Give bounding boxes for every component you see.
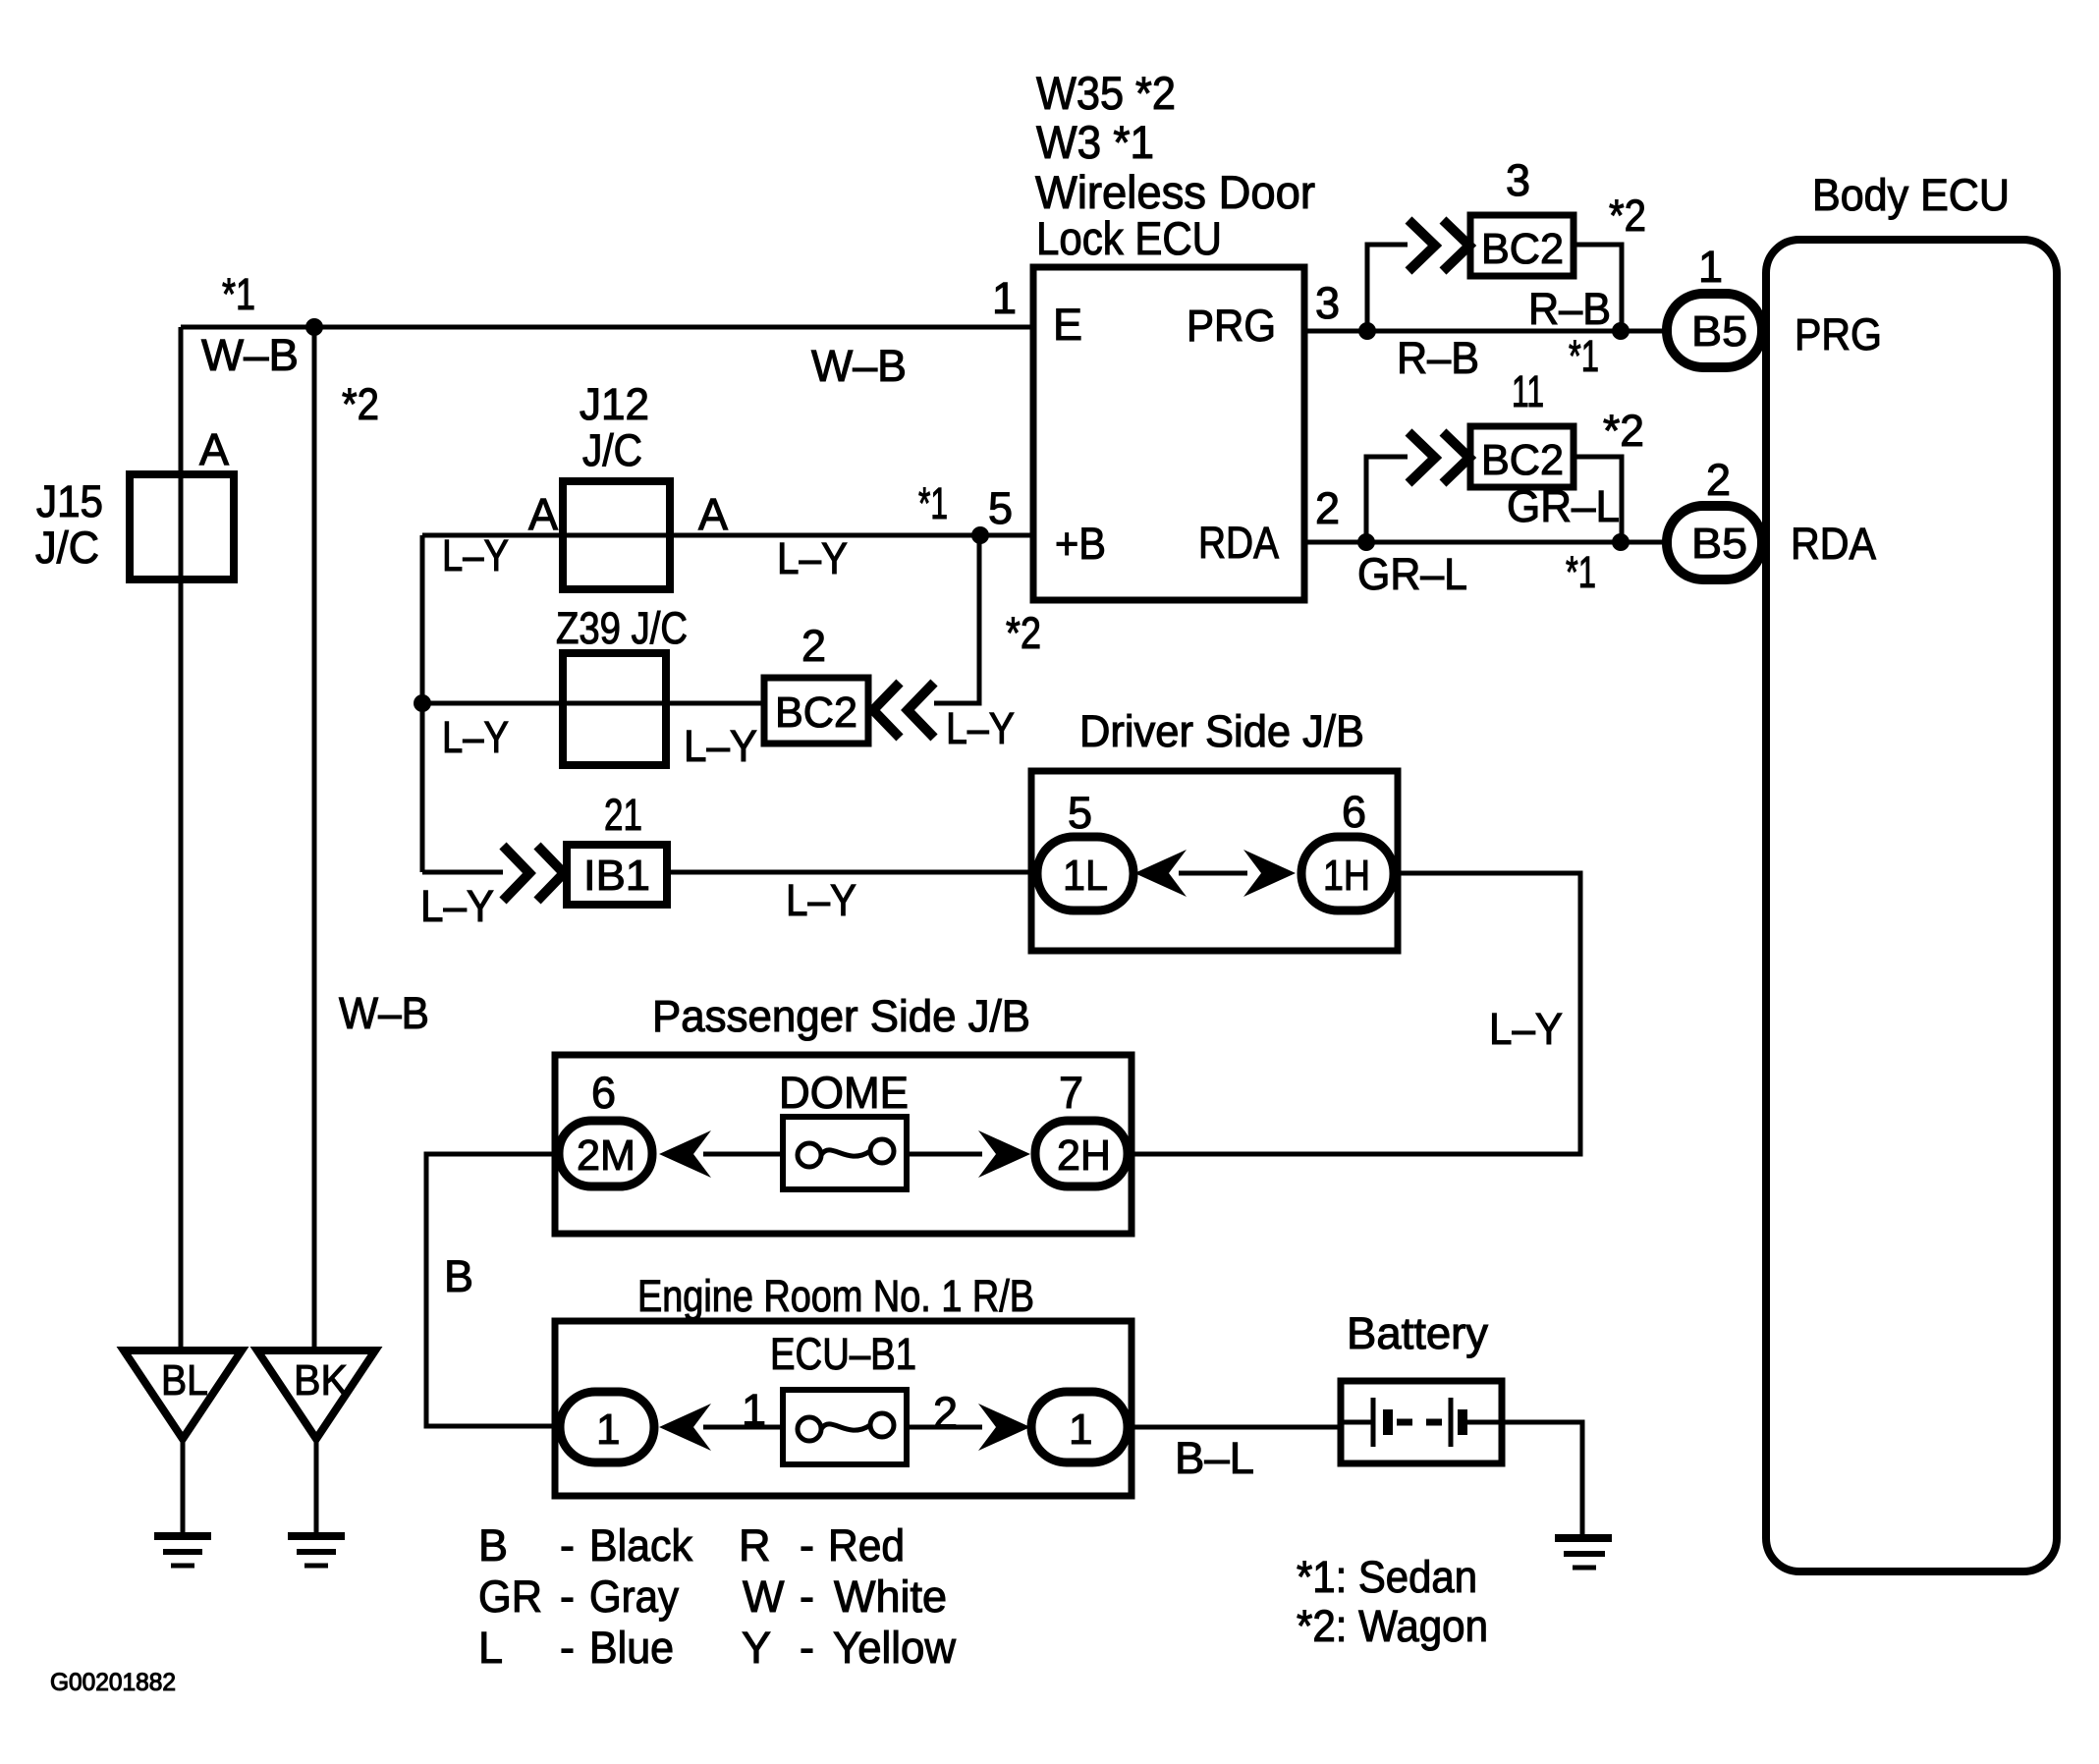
svg-text:5: 5: [988, 483, 1013, 533]
svg-text:BC2: BC2: [1481, 225, 1564, 273]
svg-text:DOME: DOME: [779, 1068, 909, 1118]
wire BC2 bypass branch right (PRG): [1574, 245, 1622, 331]
wire 2M dart to fuse: [703, 1152, 783, 1157]
svg-text:2: 2: [933, 1388, 958, 1438]
svg-text:*2: *2: [342, 379, 379, 429]
connector BC2 box (pin 2): [764, 678, 868, 744]
connector 1H oval: [1301, 837, 1394, 910]
connector chevrons into BC2 (PRG row): [1409, 220, 1469, 271]
svg-text:L: L: [478, 1623, 503, 1673]
wire B from 2M down to engine room: [426, 1154, 562, 1426]
svg-text:7: 7: [1059, 1068, 1083, 1118]
svg-text:*2: Wagon: *2: Wagon: [1297, 1601, 1488, 1651]
legend wire color code: [478, 1520, 956, 1673]
svg-text:-: -: [800, 1571, 814, 1622]
svg-text:White: White: [834, 1571, 947, 1622]
svg-text:1: 1: [742, 1385, 766, 1435]
connector B5 oval (PRG): [1667, 294, 1762, 367]
svg-text:Battery: Battery: [1347, 1308, 1489, 1358]
svg-text:3: 3: [1315, 278, 1340, 328]
svg-text:L–Y: L–Y: [420, 881, 494, 931]
node junction left (PRG): [1358, 322, 1376, 340]
wire GR-L RDA row: [1304, 540, 1667, 545]
connector dart arrow right (engine): [978, 1404, 1030, 1451]
svg-text:6: 6: [1342, 787, 1366, 837]
svg-text:Z39 J/C: Z39 J/C: [556, 603, 688, 653]
svg-text:L–Y: L–Y: [786, 875, 856, 925]
svg-text:*1: *1: [222, 269, 255, 319]
svg-text:Driver Side J/B: Driver Side J/B: [1079, 706, 1364, 756]
svg-text:B: B: [444, 1251, 473, 1301]
wire battery to ground: [1502, 1422, 1582, 1534]
svg-text:RDA: RDA: [1198, 518, 1279, 568]
wire L-Y vertical trunk: [420, 535, 425, 872]
node junction right (RDA): [1612, 533, 1629, 551]
connector chevrons into IB1 (pointing right): [503, 846, 564, 901]
svg-text:B5: B5: [1691, 520, 1747, 568]
connector IB1 box (pin 21): [567, 845, 667, 905]
svg-text:2H: 2H: [1057, 1131, 1111, 1180]
wire between darts (driver): [1179, 871, 1247, 876]
svg-text:L–Y: L–Y: [946, 703, 1015, 753]
svg-text:W–B: W–B: [201, 330, 299, 380]
svg-text:BK: BK: [294, 1356, 348, 1405]
wire W-B top horizontal (E run): [181, 325, 1033, 330]
svg-text:L–Y: L–Y: [442, 712, 509, 762]
svg-text:BC2: BC2: [775, 689, 857, 737]
svg-text:Gray: Gray: [589, 1571, 679, 1622]
svg-text:Black: Black: [589, 1520, 692, 1571]
svg-text:2: 2: [1706, 455, 1731, 505]
svg-text:11: 11: [1512, 366, 1544, 416]
svg-text:L–Y: L–Y: [684, 721, 757, 771]
svg-text:A: A: [528, 489, 558, 539]
svg-text:1: 1: [1698, 242, 1723, 292]
svg-text:1: 1: [1069, 1406, 1092, 1454]
svg-text:R–B: R–B: [1528, 284, 1611, 334]
junction box Engine Room No. 1 R/B: [555, 1321, 1132, 1496]
svg-text:Lock ECU: Lock ECU: [1036, 212, 1222, 264]
svg-text:J/C: J/C: [582, 425, 642, 475]
connector dart arrow left (engine): [659, 1404, 711, 1451]
svg-text:B5: B5: [1691, 307, 1747, 356]
svg-text:R: R: [739, 1520, 771, 1571]
connector 1L oval: [1037, 837, 1133, 910]
svg-text:-: -: [560, 1520, 575, 1571]
svg-text:-: -: [800, 1520, 814, 1571]
svg-text:Body ECU: Body ECU: [1812, 170, 2010, 220]
wire BC2 bypass branch left (RDA): [1366, 457, 1408, 542]
connector oval 1 (engine right): [1031, 1392, 1128, 1462]
svg-text:2: 2: [1315, 483, 1340, 533]
svg-text:-: -: [800, 1623, 814, 1673]
ground symbol BL: [124, 1351, 242, 1566]
node junction at pin 5: [971, 526, 989, 544]
node junction on trunk: [414, 694, 431, 712]
svg-text:3: 3: [1506, 155, 1530, 205]
svg-text:-: -: [560, 1623, 575, 1673]
wire W-B left vertical to BL ground: [179, 327, 184, 1351]
junction box Driver Side J/B: [1031, 771, 1398, 951]
wire fuse to 2H dart: [907, 1152, 982, 1157]
node junction right (PRG): [1612, 322, 1629, 340]
svg-text:L–Y: L–Y: [777, 533, 848, 583]
connector 2M oval: [559, 1121, 652, 1186]
junction connector J15 J/C box: [130, 474, 234, 579]
svg-text:2M: 2M: [577, 1131, 635, 1180]
svg-text:A: A: [698, 489, 728, 539]
svg-text:BC2: BC2: [1481, 436, 1564, 484]
svg-text:W: W: [743, 1571, 785, 1622]
svg-text:G00201882: G00201882: [50, 1669, 176, 1696]
wire R-B PRG row: [1304, 329, 1667, 334]
junction box Passenger Side J/B: [555, 1055, 1132, 1234]
svg-text:Red: Red: [828, 1520, 905, 1571]
svg-text:5: 5: [1068, 788, 1092, 838]
svg-text:J15: J15: [36, 476, 103, 526]
wire L-Y IB1 row left: [422, 870, 503, 875]
svg-text:B–L: B–L: [1175, 1433, 1254, 1483]
svg-text:*2: *2: [1006, 608, 1041, 658]
svg-text:J/C: J/C: [35, 523, 99, 573]
svg-text:L–Y: L–Y: [1489, 1004, 1563, 1054]
wire fuse to dart (engine): [907, 1425, 982, 1430]
svg-text:W35 *2: W35 *2: [1036, 67, 1176, 119]
svg-text:6: 6: [591, 1068, 616, 1118]
fuse DOME: [783, 1117, 907, 1189]
battery cell symbol: [1341, 1398, 1502, 1447]
wire L-Y Z39 row: [422, 701, 764, 706]
connector BC2 box (pin 11): [1470, 426, 1574, 487]
svg-text:GR–L: GR–L: [1357, 549, 1467, 599]
svg-text:*2: *2: [1603, 406, 1644, 456]
node junction left (RDA): [1357, 533, 1375, 551]
ECU W35/W3 Wireless Door Lock ECU box: [1033, 267, 1304, 600]
wire B-L to battery: [1128, 1425, 1341, 1430]
svg-text:1: 1: [596, 1406, 620, 1454]
svg-text:W–B: W–B: [811, 341, 907, 391]
junction connector Z39 J/C box: [563, 653, 666, 765]
svg-text:1L: 1L: [1063, 852, 1108, 900]
svg-text:1H: 1H: [1323, 852, 1370, 900]
connector chevrons into BC2 (RDA row): [1409, 432, 1469, 483]
connector dart arrow left (passenger): [659, 1130, 711, 1178]
svg-text:W3 *1: W3 *1: [1036, 116, 1154, 168]
svg-text:W–B: W–B: [339, 988, 429, 1038]
connector dart arrow left (driver): [1134, 850, 1187, 897]
svg-text:PRG: PRG: [1795, 309, 1882, 359]
junction connector J12 J/C box: [563, 481, 670, 589]
wire W-B second vertical to BK ground: [312, 327, 317, 1351]
connector dart arrow right (passenger): [978, 1130, 1030, 1178]
wire riser *2 branch to pin 5: [934, 535, 979, 703]
svg-text:R–B: R–B: [1397, 333, 1479, 383]
svg-text:Wireless Door: Wireless Door: [1035, 166, 1315, 218]
battery box: [1341, 1381, 1502, 1463]
ground symbol (battery): [1555, 1538, 1612, 1568]
svg-text:*1: *1: [1566, 547, 1596, 597]
svg-text:RDA: RDA: [1791, 519, 1876, 569]
node junction on top wire (wagon tap): [305, 318, 323, 336]
ground symbol BK: [257, 1351, 375, 1566]
wire L-Y from 1H down to 2H: [1128, 873, 1580, 1154]
svg-text:*1: Sedan: *1: Sedan: [1297, 1552, 1477, 1602]
connector oval 1 (engine left): [560, 1392, 654, 1462]
connector B5 oval (RDA): [1667, 506, 1762, 579]
svg-text:Y: Y: [742, 1623, 771, 1673]
wire L-Y J12 row to +B: [422, 533, 1033, 538]
svg-text:GR: GR: [478, 1571, 542, 1622]
svg-text:BL: BL: [161, 1356, 208, 1405]
svg-text:Passenger Side J/B: Passenger Side J/B: [652, 991, 1030, 1041]
connector 2H oval: [1035, 1121, 1128, 1186]
svg-text:Engine Room No. 1 R/B: Engine Room No. 1 R/B: [637, 1271, 1034, 1321]
wire L-Y IB1 row right: [668, 870, 1037, 875]
connector chevrons into BC2 (pointing left): [873, 683, 934, 738]
svg-text:L–Y: L–Y: [442, 530, 509, 580]
svg-text:J12: J12: [580, 379, 649, 429]
svg-text:*1: *1: [918, 478, 948, 528]
svg-text:+B: +B: [1055, 519, 1106, 569]
connector BC2 box (pin 3): [1470, 215, 1574, 276]
svg-text:Yellow: Yellow: [833, 1623, 956, 1673]
svg-text:A: A: [199, 424, 229, 474]
svg-text:*1: *1: [1569, 331, 1599, 381]
svg-text:B: B: [478, 1520, 508, 1571]
svg-text:21: 21: [604, 790, 642, 840]
svg-text:GR–L: GR–L: [1507, 481, 1620, 531]
wire BC2 bypass branch left (PRG): [1367, 245, 1408, 331]
fuse ECU-B1: [783, 1390, 907, 1464]
wire dart to fuse (engine): [703, 1425, 783, 1430]
svg-text:ECU–B1: ECU–B1: [770, 1329, 916, 1379]
svg-text:2: 2: [801, 621, 826, 671]
connector dart arrow right (driver): [1243, 850, 1296, 897]
svg-text:PRG: PRG: [1187, 301, 1276, 351]
svg-text:*2: *2: [1609, 191, 1646, 241]
svg-text:Blue: Blue: [589, 1623, 674, 1673]
svg-text:IB1: IB1: [583, 852, 650, 900]
svg-text:-: -: [560, 1571, 575, 1622]
svg-text:E: E: [1053, 300, 1082, 350]
wire BC2 bypass branch right (RDA): [1574, 457, 1622, 542]
ECU Body ECU box: [1766, 240, 2057, 1571]
svg-text:1: 1: [992, 273, 1017, 323]
